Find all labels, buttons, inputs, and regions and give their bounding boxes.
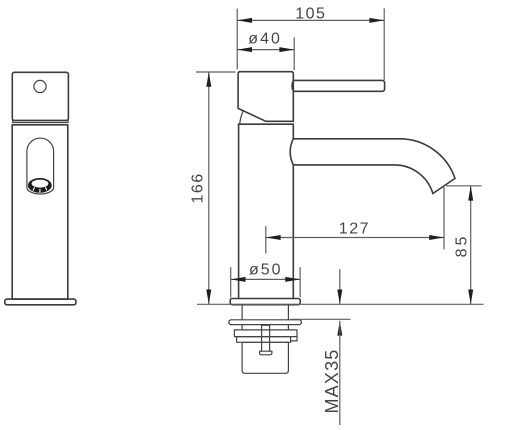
front view handle housing	[12, 72, 68, 120]
front view aerator ring	[28, 178, 52, 193]
side view lever handle	[292, 80, 385, 91]
dimension 85 arrow bottom	[468, 290, 473, 305]
shank below washer	[242, 325, 288, 330]
valve block	[242, 342, 288, 373]
clamp step	[291, 337, 297, 341]
dimension MAX35 arrow down	[337, 290, 342, 305]
side view spout bottom edge	[293, 165, 433, 194]
dimension d50 extension right	[299, 267, 301, 297]
side view body right edge lower	[292, 165, 294, 299]
dimension d40 extension right	[293, 37, 295, 70]
dimension d40 line	[237, 49, 294, 51]
dimension MAX35 arrow up	[337, 321, 342, 336]
mounting deck line	[197, 303, 484, 305]
aerator inner face	[32, 180, 49, 188]
side view spout root arc	[290, 139, 293, 165]
side view body top edge	[239, 123, 294, 125]
dimension 105 arrow right	[369, 18, 384, 23]
side view handle housing	[238, 72, 293, 122]
dimension 85 arrow top	[468, 186, 473, 201]
clamp flange	[234, 330, 297, 337]
svg-text:105: 105	[295, 6, 326, 23]
mounting stud	[262, 325, 270, 351]
dimension 127 line	[266, 237, 444, 239]
stud foot	[260, 351, 272, 355]
side view base plate	[230, 299, 300, 305]
dimension 105 extension right	[383, 8, 385, 80]
side view spout top edge	[293, 139, 455, 179]
side view joint arc	[240, 111, 243, 123]
dimension 85 line	[470, 186, 472, 304]
dimension 127 extension right	[443, 187, 445, 249]
front view body	[12, 125, 68, 299]
dimension 105 line	[237, 19, 384, 21]
svg-text:MAX35: MAX35	[322, 348, 342, 413]
front view button hole	[34, 80, 46, 92]
dimension d50 arrow right	[285, 277, 300, 282]
dimension d40 arrow right	[279, 47, 294, 52]
aerator knurl ticks	[33, 187, 47, 193]
front view spout capsule	[27, 138, 54, 194]
svg-text:85: 85	[454, 234, 471, 258]
dimension 127 arrow left	[266, 235, 281, 240]
dimension 166 extension top	[196, 71, 236, 73]
svg-text:166: 166	[189, 172, 206, 203]
dimension d40 arrow left	[237, 47, 252, 52]
dimension 166 arrow top	[206, 72, 211, 87]
dimension 105 extension left	[236, 9, 238, 70]
dimension 105 arrow left	[237, 18, 252, 23]
side view body left edge	[238, 124, 240, 298]
side view spout tip face	[433, 178, 455, 193]
rubber washer	[229, 320, 301, 325]
dimension MAX35 lower leader	[339, 321, 341, 425]
svg-text:ø40: ø40	[248, 31, 282, 48]
dimension 85 extension top	[446, 185, 482, 187]
svg-text:ø50: ø50	[249, 262, 283, 279]
shank tube	[242, 305, 288, 320]
dimension d50 line	[231, 278, 300, 280]
dimension d50 extension left	[230, 267, 232, 297]
dimension d50 arrow left	[231, 277, 246, 282]
dimension MAX35 extension line	[291, 318, 351, 320]
front view base plate	[5, 299, 76, 305]
dimension 166 arrow bottom	[206, 290, 211, 305]
clamp band	[237, 337, 291, 343]
dimension 127 extension left centerline	[265, 226, 267, 254]
dimension MAX35 upper leader	[339, 269, 341, 304]
front view housing base ring	[13, 120, 69, 122]
side view body right edge upper	[292, 124, 294, 139]
dimension 127 arrow right	[429, 235, 444, 240]
dimension 166 line	[208, 72, 210, 304]
svg-text:127: 127	[339, 220, 370, 237]
